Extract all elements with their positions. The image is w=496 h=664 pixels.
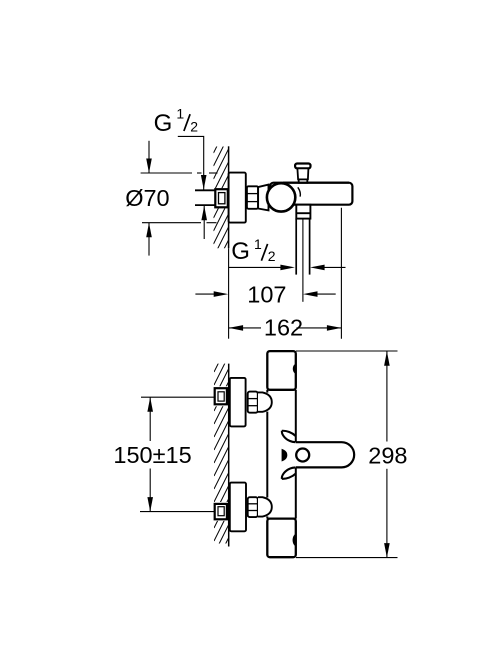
- hex union nut top view: [247, 186, 258, 209]
- svg-text:Ø70: Ø70: [125, 185, 169, 211]
- svg-text:1: 1: [176, 106, 184, 122]
- thermostat handle circle top view: [267, 183, 295, 211]
- svg-text:150±15: 150±15: [113, 442, 191, 468]
- body top edge redraw: [283, 182, 349, 184]
- 107 dimension: [195, 293, 215, 295]
- G 1/2 spout dimension arrows: [229, 266, 283, 268]
- spout (bottom view): [296, 442, 354, 467]
- wall fitting bottom (bottom view): [215, 504, 227, 519]
- wall hatching (top view): [214, 123, 229, 283]
- hex nut bottom (bottom view): [248, 497, 258, 517]
- 162 dimension: [229, 327, 261, 329]
- escutcheon (Ø70 flange) top view: [229, 173, 246, 223]
- Ø70 arrow down: [148, 141, 150, 173]
- wall surface line (top view), continues as extension line for 107/162: [228, 146, 230, 248]
- wall fitting (square union) top view: [215, 189, 228, 207]
- wall fitting top (bottom view): [215, 388, 227, 404]
- wall hatching (bottom view): [214, 343, 229, 580]
- spout flange below body: [296, 205, 310, 219]
- ring on spout: [296, 449, 309, 462]
- dark half-disc on body: [282, 449, 288, 462]
- detail arc on body: [298, 187, 301, 196]
- svg-text:298: 298: [368, 443, 407, 469]
- svg-text:107: 107: [247, 281, 286, 307]
- Ø70 top extension line: [141, 172, 192, 174]
- supply pipe stub behind wall: [195, 189, 215, 191]
- handle top (bottom view): [267, 351, 296, 390]
- svg-text:2: 2: [190, 119, 198, 135]
- separation lines body/handles: [267, 389, 296, 391]
- spout lower leaf: [282, 467, 296, 478]
- leader from G 1/2 to pipe: [178, 136, 204, 189]
- Ø70 bottom extension line: [142, 222, 201, 224]
- 150±15 dimension line: [149, 397, 151, 441]
- svg-text:G: G: [154, 110, 173, 137]
- 150±15 extension lines: [141, 396, 215, 398]
- hex nut top (bottom view): [248, 392, 258, 413]
- spout upper leaf: [282, 431, 296, 442]
- wall surface line (bottom view): [228, 364, 230, 547]
- dark crescent top handle: [293, 364, 296, 374]
- svg-text:G: G: [231, 238, 250, 265]
- dark crescent bottom handle: [293, 534, 296, 547]
- escutcheon top (bottom view): [230, 378, 246, 427]
- 162 right extension line: [340, 208, 342, 339]
- 298 extension lines: [296, 350, 398, 352]
- spout outlet pipe lines: [295, 219, 297, 275]
- dome connector top union: [258, 392, 272, 411]
- svg-text:1: 1: [254, 236, 262, 252]
- tapered connector to handle: [258, 185, 268, 211]
- diverter knob foot: [299, 179, 308, 182]
- svg-text:2: 2: [268, 248, 276, 264]
- diverter knob cap: [295, 164, 310, 169]
- 298 dimension line: [386, 351, 388, 441]
- escutcheon bottom (bottom view): [230, 483, 246, 532]
- spout center line: [302, 219, 304, 302]
- mixer body (horizontal) top view: [270, 183, 352, 205]
- Ø70 arrow up: [148, 223, 150, 256]
- handle bottom (bottom view): [267, 519, 296, 558]
- diverter knob stem: [297, 168, 308, 179]
- mixer body edges (bottom view): [266, 390, 268, 393]
- dome connector bottom union: [258, 497, 272, 516]
- G 1/2 up arrow under pipe: [203, 206, 205, 239]
- svg-text:162: 162: [264, 315, 303, 341]
